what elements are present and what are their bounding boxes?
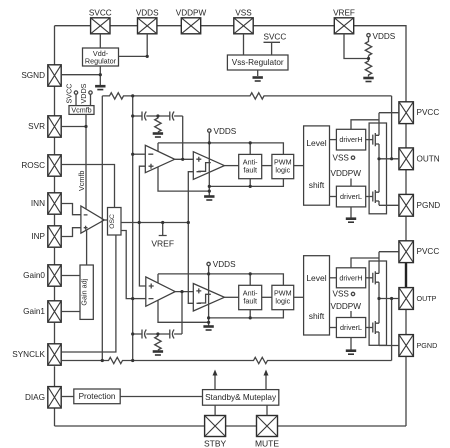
ground below comparator B <box>203 327 213 331</box>
node VDDPW label A <box>331 169 362 186</box>
wire driverL A to ground <box>350 207 352 218</box>
ground below feedback A <box>153 134 163 138</box>
pin SVR <box>28 116 61 137</box>
wire Vss-Regulator to ground <box>257 70 259 76</box>
BLOCKS <box>69 48 387 405</box>
svg-text:driverL: driverL <box>340 323 362 332</box>
pin VREF <box>333 9 355 34</box>
svg-text:PGND: PGND <box>417 341 438 350</box>
pin STBY <box>204 416 227 448</box>
svg-text:SVCC: SVCC <box>89 9 112 18</box>
node Vcmfb SVCC terminal <box>65 84 78 106</box>
wire PWM A to Level shift A <box>294 165 304 167</box>
node VDDS channel B <box>207 260 236 269</box>
wire SGND to regulator ground node <box>61 74 100 76</box>
wire PWM B to Level shift B <box>294 296 304 298</box>
wire STBY to Standby block <box>214 405 216 415</box>
wire Level shift A to driverH A <box>330 139 337 141</box>
wire integrator A return to ground node <box>158 167 209 192</box>
transistor Q2 low-side A <box>373 190 379 203</box>
pin INP <box>31 226 61 247</box>
comparator B <box>193 284 224 312</box>
svg-text:Regulator: Regulator <box>85 57 117 66</box>
PWM logic block B <box>272 285 294 309</box>
ground below comparator A <box>204 197 214 201</box>
pin PVCC bottom <box>399 241 439 263</box>
comparator A <box>193 152 224 180</box>
svg-text:VDDPW: VDDPW <box>331 302 362 311</box>
Protection block <box>74 389 120 404</box>
svg-text:VSS: VSS <box>333 153 350 162</box>
ground below feedback B <box>153 352 163 356</box>
svg-text:ROSC: ROSC <box>21 161 45 170</box>
ground below Vss-Regulator <box>253 78 263 82</box>
svg-text:driverH: driverH <box>339 273 362 282</box>
pin INN <box>31 193 61 214</box>
capacitor C4 feedback B <box>170 292 182 339</box>
svg-text:Gain0: Gain0 <box>23 271 45 280</box>
wire bold power segment PVCC2 to OUTP <box>405 263 407 288</box>
OSC block <box>108 208 122 236</box>
wire loop right rail <box>391 96 393 361</box>
svg-text:PGND: PGND <box>417 201 441 210</box>
wire package outline left edge <box>54 26 56 426</box>
wire VDDS rail channel A <box>158 132 283 195</box>
wire integrator B return to ground node <box>158 301 209 323</box>
wire driverH B to gate Q3 <box>366 277 373 279</box>
wire INP jog to input op-amp <box>61 228 81 237</box>
pin OUTN <box>399 148 440 170</box>
svg-text:Level: Level <box>306 138 326 148</box>
Anti-fault block A <box>239 154 262 178</box>
wire loop left rail <box>101 96 103 361</box>
wire driverL B to ground <box>350 338 352 350</box>
wire driverH A supply <box>351 120 379 130</box>
capacitor C1 feedback A <box>133 112 170 121</box>
node SVCC terminal of Vss-Regulator <box>264 33 287 56</box>
wire driverL A to gate Q2 <box>366 196 373 198</box>
driverL block B <box>336 318 365 338</box>
wire DIAG to Protection <box>61 396 74 398</box>
wire Gain adj to input op-amp <box>86 230 88 265</box>
svg-text:SVCC: SVCC <box>264 33 287 42</box>
resistor feedback B to ground <box>155 334 161 350</box>
svg-text:VREF: VREF <box>151 239 174 249</box>
pin PGND top <box>399 194 440 216</box>
Level shift block B <box>304 256 330 335</box>
pin VDDS <box>136 9 159 34</box>
PWM logic block A <box>272 154 294 178</box>
transistor Q3 high-side B <box>373 271 379 284</box>
wire integrator B output to comparator B <box>175 291 193 293</box>
wire package outline top edge <box>55 26 407 102</box>
node VDDS channel A <box>208 127 237 136</box>
svg-text:Gain1: Gain1 <box>23 307 45 316</box>
wire driverL B to gate Q4 <box>366 327 373 329</box>
wire loop top with resistors <box>102 93 391 99</box>
Gain adj block <box>80 265 94 319</box>
wire package outline right edge <box>405 124 407 335</box>
wire comparator A to Anti-fault A <box>224 165 238 167</box>
wire output stage B to OUTP <box>379 298 399 300</box>
ground below Vdd-Regulator <box>95 86 105 89</box>
transistor Q1 high-side A <box>373 133 379 146</box>
svg-text:Standby& Muteplay: Standby& Muteplay <box>205 393 277 402</box>
driverH block A <box>336 129 365 150</box>
pin OUTP <box>399 288 437 310</box>
wire triangle rail to comparators <box>188 172 193 304</box>
wire Standby control arrow right <box>264 370 269 390</box>
wire output stage A to OUTN <box>379 158 399 160</box>
pin MUTE <box>255 416 279 448</box>
output stage block A <box>369 123 386 214</box>
capacitor C2 feedback A <box>170 112 183 160</box>
driverH block B <box>336 268 365 288</box>
svg-text:VDDS: VDDS <box>213 260 236 269</box>
svg-text:SGND: SGND <box>21 71 45 80</box>
svg-text:PVCC: PVCC <box>417 247 440 256</box>
Level shift block A <box>304 126 330 205</box>
svg-text:VDDS: VDDS <box>79 83 88 103</box>
Anti-fault block B <box>239 285 262 309</box>
svg-text:Protection: Protection <box>79 392 116 401</box>
svg-text:logic: logic <box>275 166 290 175</box>
pin Gain1 <box>23 301 61 322</box>
svg-text:fault: fault <box>243 296 257 305</box>
svg-text:INP: INP <box>31 232 45 241</box>
Vss-Regulator block <box>227 55 288 70</box>
Vcmfb block <box>69 105 94 114</box>
svg-text:OUTP: OUTP <box>417 294 437 303</box>
wire driverH B supply <box>351 258 379 268</box>
svg-text:logic: logic <box>275 296 290 305</box>
resistor divider upper <box>365 37 371 56</box>
wire driverH A to gate Q1 <box>366 139 373 141</box>
node VSS label A <box>333 153 355 162</box>
svg-text:fault: fault <box>243 166 257 175</box>
wire integrator A output to comparator A <box>175 158 194 160</box>
svg-text:VDDPW: VDDPW <box>331 169 362 178</box>
svg-text:driverH: driverH <box>339 135 362 144</box>
wire VDDS rail channel B <box>158 266 283 326</box>
capacitor C3 feedback B <box>133 330 170 339</box>
svg-text:driverL: driverL <box>340 192 362 201</box>
wire output stage A mid node <box>378 144 380 192</box>
wire comparator B to Anti-fault B <box>224 296 238 298</box>
wire output stage B to PVCC <box>379 252 399 274</box>
Vdd-Regulator block <box>83 48 119 66</box>
output stage block B <box>369 261 386 345</box>
svg-text:SVCC: SVCC <box>65 84 74 104</box>
wire Level shift B to driverL B <box>330 327 337 329</box>
wire VSS to Vss-Regulator <box>243 34 245 55</box>
wire Gain0 to Gain adj <box>61 275 80 277</box>
svg-text:INN: INN <box>31 199 45 208</box>
pin SYNCLK <box>12 344 61 365</box>
wire MUTE to Standby block <box>266 405 268 415</box>
svg-text:STBY: STBY <box>204 439 227 448</box>
svg-text:Level: Level <box>306 273 326 283</box>
op-amp integrator A <box>145 145 174 172</box>
wire feedback rail center <box>132 96 134 361</box>
pin DIAG <box>25 387 61 408</box>
wire OSC output <box>121 222 188 224</box>
pin VSS <box>234 9 253 34</box>
svg-text:VDDPW: VDDPW <box>176 9 207 18</box>
svg-text:shift: shift <box>309 311 325 321</box>
pin PGND bottom <box>399 335 437 357</box>
wire output stage A to PGND <box>379 201 399 205</box>
wire ROSC to OSC <box>61 165 114 208</box>
wire Protection to Standby block <box>120 396 202 398</box>
svg-text:PVCC: PVCC <box>417 108 440 117</box>
wire loop bottom with resistors <box>61 357 391 363</box>
wire SVR to Vcmfb rail <box>61 126 86 128</box>
wire input op-amp output to OSC <box>104 219 107 221</box>
svg-text:SYNCLK: SYNCLK <box>12 350 45 359</box>
wire SYNCLK to OSC <box>61 231 133 353</box>
pin PVCC top <box>399 102 439 124</box>
Standby and Mute block <box>203 390 279 406</box>
wire Level shift A to driverL A <box>330 196 337 198</box>
resistor divider lower <box>365 56 371 77</box>
wire VREF to divider node <box>344 34 369 59</box>
node Vcmfb VDDS terminal <box>79 83 92 105</box>
wire Anti-fault A to PWM A <box>262 165 272 167</box>
svg-text:VDDS: VDDS <box>214 127 237 136</box>
node VDDPW label B <box>331 302 362 318</box>
pin Gain0 <box>23 265 61 286</box>
node VDDS terminal of divider <box>367 32 396 41</box>
svg-text:OUTN: OUTN <box>417 154 440 163</box>
wire Level shift B to driverH B <box>330 277 337 279</box>
svg-text:VSS: VSS <box>333 290 350 299</box>
node VSS label B <box>333 290 355 299</box>
pin SGND <box>21 65 61 86</box>
pin VDDPW <box>176 9 207 34</box>
wire integrator A inverting input <box>133 153 146 155</box>
wire Gain1 to Gain adj <box>61 311 80 313</box>
svg-text:VSS: VSS <box>235 9 252 18</box>
wire VREF rail to both integrators <box>139 166 145 286</box>
svg-text:MUTE: MUTE <box>255 439 279 448</box>
resistor feedback A to ground <box>155 116 161 132</box>
wire output stage B to PGND <box>379 332 399 346</box>
svg-text:shift: shift <box>309 180 325 190</box>
transistor Q4 low-side B <box>373 321 379 334</box>
wire INN jog to input op-amp <box>61 204 81 215</box>
node VREF terminal <box>151 223 174 249</box>
wire integrator B inverting input <box>133 298 146 300</box>
svg-text:VREF: VREF <box>333 9 355 18</box>
ground below divider <box>363 78 373 82</box>
wire Anti-fault B to PWM B <box>262 296 272 298</box>
svg-text:Vss-Regulator: Vss-Regulator <box>232 58 284 67</box>
svg-text:Vcmfb: Vcmfb <box>71 105 91 114</box>
svg-text:SVR: SVR <box>28 122 45 131</box>
wire output stage B mid node <box>378 282 380 323</box>
svg-text:DIAG: DIAG <box>25 393 45 402</box>
wire SVCC to Vdd-Regulator <box>99 34 101 48</box>
pin SVCC <box>89 9 112 34</box>
wire package outline bottom edge <box>55 356 407 426</box>
svg-text:Vcmfb: Vcmfb <box>77 171 86 191</box>
ground below driverL B <box>346 351 356 355</box>
wire Vdd-Regulator to ground <box>99 66 101 85</box>
svg-text:VDDS: VDDS <box>373 32 396 41</box>
pin ROSC <box>21 155 61 176</box>
svg-text:Gain adj: Gain adj <box>80 278 89 305</box>
svg-text:OSC: OSC <box>109 214 116 229</box>
wire Vcmfb rail to input op-amp <box>85 114 87 209</box>
op-amp input stage U1 <box>81 206 104 233</box>
svg-text:VDDS: VDDS <box>136 9 159 18</box>
op-amp integrator B <box>146 277 175 306</box>
wire VDDS to Vdd-Regulator <box>119 34 148 57</box>
ground below driverL A <box>346 219 356 223</box>
driverL block A <box>336 186 365 207</box>
wire Standby control arrow left <box>213 370 218 390</box>
wire output stage A to PVCC <box>379 113 399 136</box>
